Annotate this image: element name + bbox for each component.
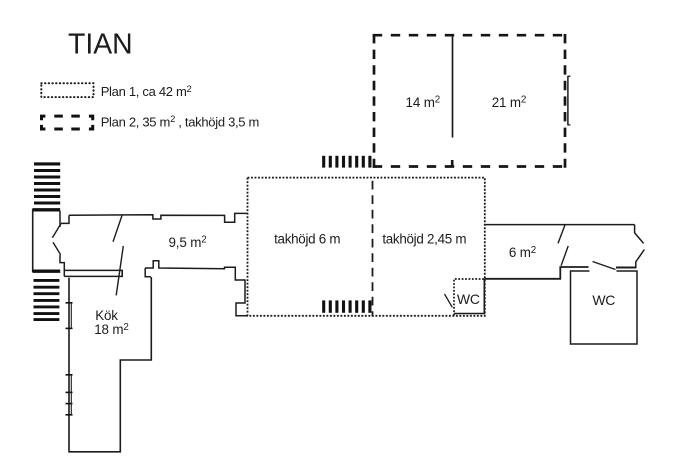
legend plan2 dashed box: [42, 116, 93, 129]
entrance chamber left wall: [32, 209, 34, 272]
room plan2 dashed rectangle: [373, 34, 566, 168]
WC door leaf: [593, 262, 616, 270]
corridor bottom wall with notch: [145, 261, 247, 316]
entrance chamber top bold wall: [32, 208, 60, 211]
svg-text:TIAN: TIAN: [68, 28, 133, 60]
right end notch upper: [635, 225, 644, 244]
window on right dashed wall: [567, 76, 569, 126]
door leaf corridor 2: [116, 246, 123, 295]
stairs lower: [34, 280, 60, 319]
dashed interior divider: [372, 181, 374, 317]
wall stub below divider: [451, 160, 454, 167]
entrance chamber right wall lower + step: [60, 255, 64, 277]
entrance chamber bottom bold wall: [32, 270, 60, 273]
svg-text:Plan 1, ca 42 m2: Plan 1, ca 42 m2: [101, 83, 192, 99]
svg-text:Kök: Kök: [95, 308, 118, 323]
svg-text:takhöjd 2,45 m: takhöjd 2,45 m: [382, 231, 466, 246]
kok room outline: [69, 277, 151, 452]
entrance chamber right wall upper: [59, 211, 61, 227]
legend plan1 dotted box: [41, 83, 93, 97]
wall end cap at kok door: [121, 270, 123, 277]
right end notch lower: [636, 250, 645, 269]
svg-text:WC: WC: [592, 292, 615, 308]
WC room right: [571, 271, 638, 344]
svg-text:WC: WC: [457, 291, 480, 307]
kok window ticks: [66, 303, 73, 415]
small WC solid walls: [454, 279, 484, 314]
stairs hatch top: [324, 156, 370, 168]
right wing bottom wall: [485, 267, 589, 279]
right wing door leaf 2: [561, 246, 568, 266]
corridor bottom double wall upper line: [64, 269, 122, 271]
svg-text:Plan 2, 35 m2 , takhöjd 3,5 m: Plan 2, 35 m2 , takhöjd 3,5 m: [101, 113, 259, 129]
entrance door leaf lower: [53, 242, 61, 255]
right wing top wall: [485, 224, 635, 226]
right wing door leaf 1: [558, 225, 565, 244]
wall segment right of kok door: [145, 268, 151, 277]
svg-text:takhöjd 6 m: takhöjd 6 m: [274, 231, 340, 246]
stairs upper: [34, 164, 60, 203]
stairs hatch bottom: [324, 300, 370, 312]
left wing top wall: [69, 213, 248, 222]
wall segment above WC right: [616, 267, 636, 269]
room plan1 dotted rectangle: [248, 178, 485, 316]
wall jog at chamber top: [61, 215, 69, 223]
kok top wall left segment: [64, 275, 122, 277]
entrance door leaf upper: [52, 224, 61, 238]
small WC door leaf: [445, 294, 453, 307]
small WC dotted walls: [454, 279, 484, 316]
svg-text:9,5 m2: 9,5 m2: [168, 235, 206, 250]
wall divider between 14m2 and 21m2: [452, 36, 454, 138]
kok window glazing line lower: [70, 375, 72, 415]
door leaf corridor 1: [113, 216, 122, 242]
kok window glazing line upper: [70, 303, 72, 328]
